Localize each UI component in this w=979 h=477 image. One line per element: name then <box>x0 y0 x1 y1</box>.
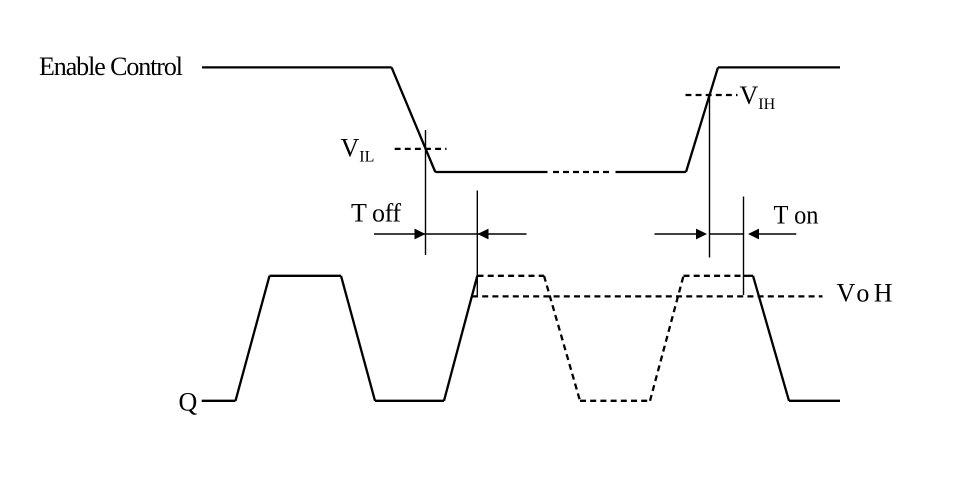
wire Q-low-start <box>202 400 236 402</box>
node Toff right-pointing arrowhead <box>415 229 426 240</box>
node Ton left-pointing arrowhead <box>748 229 759 240</box>
node marker line at Q-rise valid point <box>476 191 478 297</box>
svg-text:VoH: VoH <box>837 279 893 308</box>
wire enable-falling-edge <box>392 67 436 172</box>
wire Q-falling-edge-1 <box>341 276 375 401</box>
wire Q-disabled-dashed-high-2 <box>684 275 744 277</box>
wire Q-disabled-dashed-fall <box>544 276 580 401</box>
wire Q-rising-edge-2 <box>444 276 477 401</box>
wire Q-solid-high-right <box>744 275 754 277</box>
wire enable-high-left <box>202 66 392 68</box>
svg-text:T off: T off <box>351 199 401 228</box>
wire Q-falling-edge-2 <box>753 276 789 401</box>
wire Ton dimension line middle part <box>710 233 744 235</box>
node marker line at enable-rise VIH crossing <box>709 95 711 258</box>
wire Q-disabled-dashed-rise <box>650 276 684 401</box>
wire Q-low-middle <box>375 400 444 402</box>
wire enable-low-dashed-middle <box>553 171 610 173</box>
svg-text:Q: Q <box>179 388 198 417</box>
wire enable-rising-edge <box>686 67 718 172</box>
svg-text:Enable Control: Enable Control <box>39 52 183 81</box>
svg-text:T on: T on <box>774 201 819 230</box>
wire Q-low-end <box>789 400 840 402</box>
node Ton right-pointing arrowhead <box>696 229 707 240</box>
node VIL threshold dashed line <box>395 148 447 150</box>
node Toff left-pointing arrowhead <box>478 229 489 240</box>
wire enable-high-right <box>718 66 840 68</box>
wire enable-low-left <box>435 171 547 173</box>
wire Ton dimension line right part <box>759 233 796 235</box>
wire Q-high-1 <box>270 275 342 277</box>
wire Q-disabled-dashed-low <box>580 400 650 402</box>
node VIH threshold dashed line <box>686 94 738 96</box>
node marker line at enable-fall VIL crossing <box>425 130 427 255</box>
wire enable-low-right <box>616 171 687 173</box>
wire Q-disabled-dashed-high-1 <box>478 275 545 277</box>
wire Ton dimension line left part <box>655 233 697 235</box>
node VoH dashed reference line <box>472 295 823 297</box>
wire Toff dimension line <box>374 233 527 235</box>
wire Q-rising-edge-1 <box>236 276 270 401</box>
node marker line at Q valid-on point <box>743 197 745 296</box>
